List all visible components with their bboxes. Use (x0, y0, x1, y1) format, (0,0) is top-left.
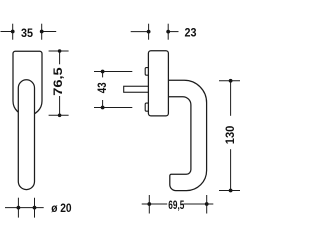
dimension diameter 20 line (5, 198, 44, 218)
dimension 35 dots (11, 30, 15, 34)
dimension 23 line (131, 24, 179, 40)
dimension 35 line (1, 24, 57, 40)
dimension 23 dots (147, 30, 151, 34)
svg-text:130: 130 (223, 125, 237, 144)
side view spindle shaft (124, 86, 149, 92)
svg-text:69,5: 69,5 (168, 198, 184, 212)
svg-text:35: 35 (21, 26, 33, 40)
dimension diameter 20 dots (17, 206, 21, 210)
dimension 130 dots (229, 79, 233, 83)
svg-text:76,5: 76,5 (51, 67, 65, 96)
side view screw tab upper (145, 68, 150, 76)
svg-text:43: 43 (95, 82, 109, 93)
dimension 130 line (219, 81, 240, 191)
side view grip neck and tube (168, 80, 206, 190)
dimension 69,5 dots (147, 202, 151, 206)
svg-text:23: 23 (185, 26, 197, 40)
front view rose plate (13, 51, 42, 115)
front view grip lever (18, 80, 34, 190)
side view rose plate (148, 51, 168, 116)
dimension 43 dots (101, 70, 105, 74)
dimension 43 extension lines (94, 72, 132, 108)
dimension 69,5 line (142, 195, 214, 214)
svg-text:ø 20: ø 20 (51, 201, 72, 215)
side view screw tab lower (145, 103, 150, 111)
dimension 76,5 line (49, 51, 69, 115)
dimension 76,5 dots (58, 49, 62, 53)
